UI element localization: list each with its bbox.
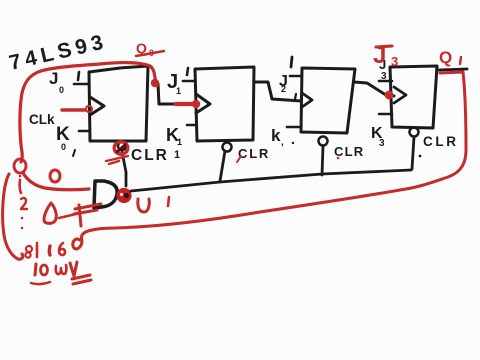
red digit 1 row1 xyxy=(36,245,39,257)
red column mark 2 xyxy=(21,198,27,209)
red left arc xyxy=(3,174,23,259)
NAND G1 output bubble with red ring xyxy=(116,188,131,203)
red 0 annotation above NAND input A xyxy=(50,170,60,182)
red underline row2 left xyxy=(31,282,50,284)
flip-flop U3 box xyxy=(301,68,355,133)
red F-shaped input B connector xyxy=(79,205,81,226)
svg-text:1: 1 xyxy=(176,86,181,96)
U2 J input stub xyxy=(183,80,195,83)
svg-text:CLR: CLR xyxy=(131,147,169,164)
U4 K input stub xyxy=(379,113,392,116)
red clock input line xyxy=(62,108,85,111)
U1 J input stub xyxy=(74,83,88,86)
U4 CLR bubble xyxy=(410,128,419,137)
U3 J input stub xyxy=(290,75,301,78)
U1 K input stub xyxy=(79,130,88,133)
svg-text:CLR: CLR xyxy=(238,146,270,161)
svg-text:CLR: CLR xyxy=(334,144,364,159)
wire U3 CLR down xyxy=(322,146,323,175)
svg-text:k: k xyxy=(271,126,281,145)
svg-text:0: 0 xyxy=(61,142,66,152)
wire Q1 to U3 clock xyxy=(254,82,301,101)
svg-text:J: J xyxy=(373,42,386,69)
svg-text:1: 1 xyxy=(174,149,180,161)
red loop node on feedback xyxy=(14,159,26,173)
wire U1 CLR to NAND output xyxy=(122,152,126,186)
wire Q0 to U2 clock xyxy=(158,84,198,104)
NAND output long wire to CLR rail xyxy=(131,170,411,191)
svg-text:,: , xyxy=(281,137,284,148)
red tick near U2 CLR xyxy=(237,156,241,162)
red digit 6 row1 xyxy=(59,243,65,255)
svg-text:J: J xyxy=(49,69,58,88)
svg-text:2: 2 xyxy=(281,84,286,94)
red digit 8 row1 xyxy=(26,246,32,252)
red column mark i xyxy=(20,180,21,193)
logic 1 tick above U2 J xyxy=(187,68,188,75)
wire Q2 to U4 clock xyxy=(354,82,394,96)
red overdraw wire into U2 clock xyxy=(176,102,198,106)
U2 clock chevron xyxy=(196,94,210,113)
red delta annotation xyxy=(44,203,56,223)
wire U4 CLR down xyxy=(412,137,414,169)
flip-flop U2 box xyxy=(195,67,254,141)
red double underline row2 right xyxy=(72,275,91,284)
red wire Q3 feedback down right side to NAND input B xyxy=(73,72,466,249)
U3 K input stub xyxy=(287,126,299,129)
U2 CLR bubble xyxy=(223,143,232,152)
svg-text:CLR: CLR xyxy=(423,134,459,149)
svg-text:CLk: CLk xyxy=(29,112,55,127)
logic 1 tick above U1 J xyxy=(78,72,79,80)
svg-text:3: 3 xyxy=(379,138,385,149)
svg-text:3: 3 xyxy=(391,54,398,69)
flip-flop U1 box xyxy=(89,66,148,141)
svg-text:1: 1 xyxy=(177,137,182,147)
U4 J input stub xyxy=(379,80,392,83)
U3 CLR bubble xyxy=(319,137,328,146)
NAND gate G1 body xyxy=(94,181,117,208)
red U annotation under NAND output xyxy=(138,199,149,212)
svg-text:3: 3 xyxy=(381,71,387,82)
logic 1 tick above U3 J xyxy=(291,57,292,67)
svg-text:0: 0 xyxy=(59,85,64,95)
red blob at Q0 corner xyxy=(151,79,159,87)
red 1 tick annotation xyxy=(168,197,169,206)
U1 clock chevron xyxy=(90,97,104,115)
flip-flop U4 box xyxy=(390,66,437,128)
wire Q3 out xyxy=(438,69,467,70)
red line from delta mark xyxy=(59,214,76,218)
red scribble under U1 CLR xyxy=(106,156,128,164)
U4 clock chevron xyxy=(394,87,406,103)
U1 CLR bubble xyxy=(118,142,126,150)
wire U2 CLR down xyxy=(220,151,225,181)
red blob at U2 clock xyxy=(192,100,200,108)
red wire Q0 feedback to NAND input A xyxy=(20,63,157,162)
U2 K input stub xyxy=(187,124,196,127)
red underline Q0 xyxy=(136,51,164,56)
red column dots xyxy=(21,217,24,220)
red digit V row2 xyxy=(70,262,77,276)
red blob at U4 clock xyxy=(385,91,394,100)
red digit 0 row2 xyxy=(41,265,48,275)
red label J3 xyxy=(376,46,392,47)
U3 clock chevron xyxy=(302,93,312,107)
red circle around U1 CLR bubble xyxy=(114,142,128,154)
red digit 1 row2 xyxy=(35,264,36,275)
red dot near U3 CLR xyxy=(337,157,340,160)
red ring at clock pin xyxy=(86,106,92,112)
svg-text:Q: Q xyxy=(439,48,452,67)
red digit w row2 xyxy=(56,265,67,274)
tick near U3 chevron xyxy=(295,94,296,99)
red digit 0 row1 xyxy=(48,246,52,255)
